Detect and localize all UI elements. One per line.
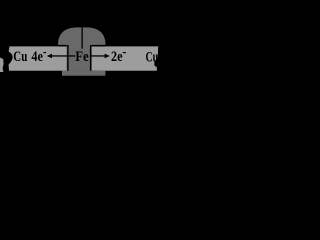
iron rivet shaft [67,44,93,71]
svg-text:4e: 4e [31,49,43,65]
plate edge line right (plate/rivet boundary) [90,45,91,71]
copper plate right (Cu sheet) [91,46,158,70]
electron arrow left (to Cu cathode) [51,55,76,56]
arrowhead right [105,54,110,59]
iron rivet dome head [58,27,106,45]
iron rivet tail [62,71,105,76]
background [0,0,164,82]
arrowhead left [47,54,52,59]
svg-text:Cu: Cu [13,49,27,65]
superscript minus of 4e- [43,52,46,53]
electron arrow right (from Fe anode) [90,55,106,56]
svg-text:2e: 2e [111,49,123,65]
plate top edge line right under dome [91,45,105,46]
plate edge line left (plate/rivet boundary) [67,45,68,71]
plate top edge line left under dome [58,45,67,46]
copper plate left (Cu sheet) [9,46,68,70]
torn sheet fragment at left image edge [0,58,4,73]
svg-text:Fe: Fe [75,49,89,65]
svg-text:Cu: Cu [146,50,159,66]
leader line from dome top to Fe label [82,27,83,48]
superscript minus of 2e- [123,52,126,53]
